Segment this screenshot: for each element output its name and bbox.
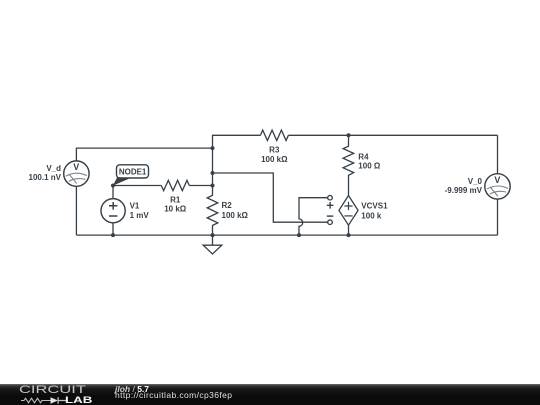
svg-text:1 mV: 1 mV (130, 211, 150, 220)
wire VCVS1 bottom (348, 225, 350, 235)
wire R1 right (189, 185, 212, 187)
svg-text:R3: R3 (269, 146, 280, 155)
label plus sign input (327, 202, 334, 209)
wire V1 top (112, 186, 114, 199)
logo LAB text (65, 395, 92, 405)
wire V1 bottom (112, 223, 114, 235)
logo CIRCUIT text (19, 384, 86, 396)
svg-text:100 kΩ: 100 kΩ (222, 211, 249, 220)
wire V_d bottom (75, 186, 77, 235)
junction R4 top (347, 133, 351, 137)
junction R2 ground (211, 233, 215, 237)
svg-text:R2: R2 (222, 201, 233, 210)
label R2 value (222, 201, 249, 220)
junction plus input ground (297, 233, 301, 237)
resistor R3 (260, 130, 288, 140)
junction node A mid (211, 171, 215, 175)
wire top rail right segment (288, 134, 497, 136)
dependent source VCVS1 (339, 196, 358, 226)
wire top rail left segment (213, 135, 261, 185)
svg-text:R1: R1 (170, 195, 181, 204)
footer title (115, 384, 149, 394)
footer bar (0, 384, 540, 405)
label V_0 value (445, 177, 483, 195)
svg-text:V: V (73, 162, 79, 172)
wire VCVS minus input (213, 173, 328, 222)
wire VCVS plus input with hop (299, 198, 328, 235)
wire R1 left (113, 185, 161, 187)
svg-text:VCVS1: VCVS1 (361, 202, 388, 211)
terminal plus input (328, 195, 333, 200)
label R1 value (164, 195, 187, 213)
footer url (115, 390, 232, 400)
resistor R1 (161, 180, 189, 190)
node NODE1 dot (111, 184, 115, 188)
svg-text:-9.999 mV: -9.999 mV (445, 186, 483, 195)
svg-text:V_d: V_d (46, 164, 61, 173)
resistor R2 (207, 186, 218, 236)
junction V1 ground (111, 233, 115, 237)
svg-text:R4: R4 (358, 153, 369, 162)
voltmeter V_d (64, 161, 89, 186)
label V1 value (130, 202, 150, 221)
wire V_0 top (497, 135, 499, 173)
svg-text:100 k: 100 k (361, 211, 382, 220)
label VCVS1 value (361, 202, 388, 221)
svg-text:NODE1: NODE1 (119, 167, 147, 176)
label minus sign input (327, 215, 334, 217)
svg-text:V_0: V_0 (468, 177, 483, 186)
svg-text:100.1 nV: 100.1 nV (29, 173, 62, 182)
label R3 value (261, 146, 288, 164)
junction VCVS1 ground (347, 233, 351, 237)
label R4 value (358, 153, 381, 171)
label NODE1 flag (113, 165, 149, 186)
junction node A R1R2 (211, 184, 215, 188)
svg-text:100 kΩ: 100 kΩ (261, 155, 288, 164)
wire V_0 bottom (497, 199, 499, 235)
ground (203, 235, 222, 254)
wire V_d top (76, 148, 212, 161)
wire bottom rail (76, 234, 497, 236)
resistor R4 (343, 135, 354, 195)
svg-text:10 kΩ: 10 kΩ (164, 205, 187, 214)
voltage source V1 (101, 199, 125, 223)
junction node A top (211, 146, 215, 150)
terminal minus input (328, 220, 333, 225)
svg-text:V: V (494, 175, 500, 185)
logo resistor diode symbol (21, 397, 69, 405)
voltmeter V_0 (485, 174, 510, 199)
svg-text:100 Ω: 100 Ω (358, 162, 381, 171)
svg-text:V1: V1 (130, 202, 140, 211)
label V_d value (29, 164, 62, 182)
